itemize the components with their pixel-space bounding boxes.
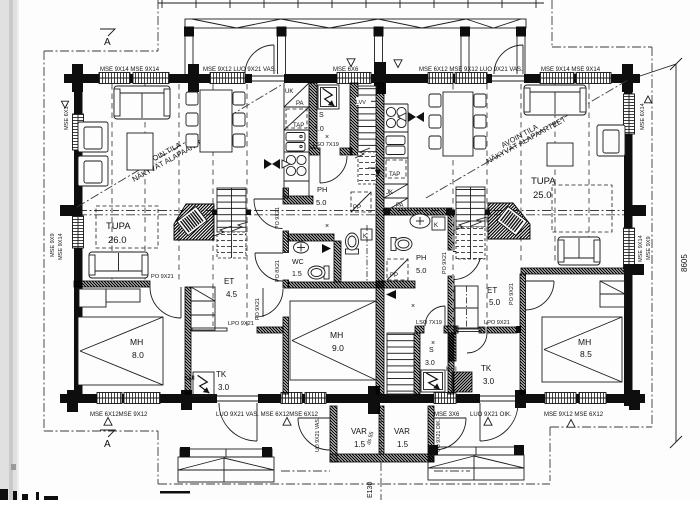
corner arrow left PH (368, 168, 381, 176)
svg-text:MH: MH (130, 337, 143, 347)
entrance door right unit arc (480, 403, 518, 441)
basin WC left (294, 242, 309, 253)
roof overhang line top-left (44, 50, 158, 52)
label TK 3.0 left (216, 370, 230, 392)
label MH 8.5 (578, 337, 592, 359)
diagonal open-space line right (426, 80, 628, 198)
door MH8.5 arc (526, 281, 555, 310)
bed MH9.0 (290, 301, 376, 380)
label KUI right (446, 366, 457, 373)
closet right ET (455, 286, 478, 329)
labels windows top-right-2 (541, 67, 601, 73)
svg-text:3.0: 3.0 (425, 360, 435, 367)
window MSE 6X14 right-1 (624, 94, 635, 134)
dashed plan rect TUPA 26 (96, 206, 158, 248)
threshold bottom doors (217, 396, 518, 401)
dashed plan rect TUPA 25 (552, 185, 612, 232)
kitchen/PH wall right unit (377, 208, 462, 215)
log cross top party-wall (374, 62, 386, 94)
label PH 5.0 left (316, 185, 327, 207)
label JK (386, 190, 393, 196)
text AVOIN TILA right (500, 122, 540, 150)
svg-text:TK: TK (481, 364, 492, 373)
svg-text:LUO 9X21 VAS. MSE 6X12MSE 6X12: LUO 9X21 VAS. MSE 6X12MSE 6X12 (216, 412, 319, 418)
porch post lines down to wall (185, 37, 525, 75)
label MSE 6X14 right wall (640, 96, 652, 130)
svg-text:8605: 8605 (680, 254, 689, 272)
PH east wall right unit (330, 215, 574, 394)
label S 3.0 left sauna (314, 112, 324, 133)
shaft/sauna wall right unit (353, 333, 483, 394)
vent symbol right kitchen (398, 112, 424, 122)
window MSE 9X12 bottom-2 (124, 393, 160, 404)
worktop TAP left (286, 109, 307, 129)
labels door bottom-left (216, 412, 319, 418)
label PO 8X21 door WC (275, 260, 281, 282)
svg-text:PO 9X21: PO 9X21 (275, 207, 281, 229)
label VAR 1.5 right (394, 427, 410, 449)
svg-text:LSO 7X19: LSO 7X19 (313, 142, 339, 148)
label ET 5.0 right (487, 286, 501, 307)
svg-text:MSE 9X14: MSE 9X14 (58, 233, 64, 260)
dining table left TUPA (200, 90, 232, 152)
labels windows top-porch (203, 67, 277, 73)
stairs left unit TUPA (214, 188, 248, 258)
hall wall left unit (206, 188, 367, 394)
sauna south wall left unit (302, 148, 361, 155)
label PO 9X21 right PH (442, 252, 448, 274)
svg-text:K: K (363, 234, 367, 240)
door PH-hall arc (254, 199, 283, 229)
svg-text:MSE 6X12 MSE 9X12 LUO 9X21 VAS: MSE 6X12 MSE 9X12 LUO 9X21 VAS. (419, 67, 523, 73)
svg-text:×: × (411, 303, 415, 310)
bed MH8.0 (78, 317, 163, 385)
scan bottom-left artifacts (0, 464, 190, 500)
toilet WC left (308, 266, 329, 279)
svg-text:VAR: VAR (394, 427, 410, 436)
toilet right PH (391, 238, 412, 251)
label PA right (396, 203, 404, 209)
roof overhang line left (43, 51, 45, 431)
label UO 9X21 OIK (436, 419, 442, 452)
coffee table left TUPA (127, 133, 153, 170)
wall WC north left unit (281, 234, 342, 241)
roof overhang line up-right of porch (551, 0, 553, 47)
svg-text:A: A (104, 439, 111, 450)
section squares at stairs (212, 210, 490, 216)
label WC 1.5 (292, 259, 304, 278)
basin right PH (410, 214, 430, 228)
svg-text:3.0: 3.0 (483, 377, 495, 386)
svg-text:3.0: 3.0 (314, 126, 324, 133)
scan page edge left (0, 0, 19, 500)
cross symbol left PH (325, 134, 329, 230)
labels windows bottom-right (544, 412, 604, 427)
door PH-ET right (453, 252, 481, 280)
window MSE 9X12 bottom-6 (545, 393, 576, 404)
label TUPA 26.0 (106, 221, 131, 246)
log stub right wall mid (624, 205, 646, 216)
svg-text:×: × (325, 223, 329, 230)
roof overhang line right (651, 47, 653, 427)
sauna west wall left unit (244, 83, 384, 148)
svg-text:PH: PH (416, 253, 426, 262)
log stub left wall mid (60, 205, 82, 216)
box K right PH (432, 217, 445, 230)
svg-text:PO 9X21: PO 9X21 (442, 252, 448, 274)
sauna east wall left unit (278, 83, 431, 155)
svg-text:MSE 9X12 LUO 9X21 VAS.: MSE 9X12 LUO 9X21 VAS. (203, 67, 277, 73)
log corner cross top-left (72, 64, 83, 92)
fireplace left unit (138, 204, 251, 240)
svg-text:26.0: 26.0 (108, 235, 127, 246)
labels MSE 9X9/9X14 left wall (50, 233, 64, 260)
svg-text:S: S (319, 112, 324, 119)
roof overhang step left porch (157, 431, 159, 484)
label MH 9.0 (330, 330, 344, 353)
sink right unit (386, 136, 405, 155)
porch canopy posts (184, 27, 526, 37)
armchair left TUPA 1 (78, 122, 108, 152)
svg-text:5.0: 5.0 (416, 266, 426, 275)
window MSE 9X14 top-1 (99, 73, 130, 84)
svg-text:TUPA: TUPA (531, 176, 556, 187)
door MH8 arc (150, 287, 181, 318)
section marker A bottom (100, 430, 115, 450)
svg-text:PP: PP (353, 205, 361, 211)
PH south wall right unit (369, 281, 424, 288)
window MSE 9X14 top-8 (576, 73, 611, 84)
sofa right TUPA bottom (558, 237, 600, 265)
sauna north wall right unit (408, 326, 468, 333)
svg-text:1.5: 1.5 (397, 440, 409, 449)
ceiling beam dashed lines left TUPA (112, 84, 247, 326)
svg-text:5.0: 5.0 (316, 198, 326, 207)
log corner cross top-right (622, 64, 633, 92)
svg-text:TAP: TAP (293, 123, 304, 129)
armchair right TUPA (597, 125, 625, 156)
stairs right unit TUPA (453, 187, 487, 259)
wall ET/MH9 (D) (282, 282, 384, 288)
svg-text:5.0: 5.0 (489, 298, 501, 307)
window MSE 6X12 bottom-3 (281, 393, 302, 404)
stove right unit (386, 107, 406, 127)
svg-text:×: × (431, 340, 435, 347)
label PA (296, 101, 304, 107)
svg-text:MH: MH (330, 330, 343, 340)
svg-text:UO 9X21 VAS.: UO 9X21 VAS. (315, 418, 321, 452)
wall MH8/ET (B) (78, 287, 299, 394)
porch right deck (428, 447, 524, 480)
left exterior wall (74, 74, 83, 403)
labels MSE 9X14/9X9 right wall (638, 235, 652, 262)
entrance door arc right unit (LUO 9X21) (494, 45, 523, 74)
kitchen low wall left unit (275, 196, 322, 204)
window MSE 9X14 top-7 (540, 73, 574, 84)
diagonal open-space line left (77, 84, 283, 207)
shaft right unit (387, 333, 414, 394)
svg-text:8.0: 8.0 (132, 350, 144, 360)
svg-text:TUPA: TUPA (106, 221, 131, 232)
window MSE 6X12 bottom-1 (97, 393, 122, 404)
chairs left of table (186, 92, 198, 147)
window MSE 9X14/9X9 right-2 (624, 228, 635, 268)
arrow triangle right PH (386, 290, 396, 299)
svg-text:MSE 3X6: MSE 3X6 (434, 412, 460, 418)
svg-text:MSE 6X12MSE 9X12: MSE 6X12MSE 9X12 (90, 412, 148, 418)
window MSE 6X12 bottom-7 (579, 393, 606, 404)
label PO 9X21 MH8.5 (509, 283, 515, 305)
label TUPA 25.0 (531, 176, 556, 201)
VAR west wall (274, 406, 396, 462)
MH8.5 north wall (515, 264, 644, 275)
label PO 9X21 MH8 door (151, 274, 174, 280)
sauna stove left (zigzag) (318, 85, 339, 109)
sofa left TUPA bottom (89, 252, 148, 278)
wall WC east left unit (293, 241, 385, 282)
ceiling beam dashed lines right TUPA (453, 84, 589, 325)
svg-text:MSE 9X14: MSE 9X14 (638, 235, 644, 262)
wall ET/TK right unit (473, 326, 526, 333)
washing machine PP right (387, 259, 408, 280)
label UO 9X21 VAS (315, 418, 321, 452)
log cross top porch-left (188, 64, 199, 92)
vent symbol left kitchen (264, 159, 290, 169)
window MSE 9X12 top-3 (210, 73, 245, 84)
label PH 5.0 right (416, 253, 426, 275)
svg-text:LSO 7X19: LSO 7X19 (416, 320, 442, 326)
svg-text:MSE 9X14 MSE 9X14: MSE 9X14 MSE 9X14 (541, 67, 601, 73)
window MSE 6X12 top-5 (428, 73, 453, 84)
door WC arc (255, 253, 283, 281)
porch left posts (180, 447, 272, 457)
svg-text:25.0: 25.0 (533, 190, 552, 201)
svg-text:A: A (104, 37, 111, 48)
bed MH8.5 (542, 317, 622, 382)
window MSE 6X6 top-4 (337, 73, 371, 84)
text NAKYVAT ALAPAARTEET right (485, 114, 568, 166)
tri marker top right (394, 60, 402, 68)
label KUI left (184, 375, 195, 382)
window MSE 9X12 top-6 (455, 73, 487, 84)
svg-text:9.0: 9.0 (332, 343, 344, 353)
svg-text:S: S (429, 347, 434, 354)
dimension line 8605 (640, 58, 689, 448)
text NAKYVAT ALAPAARTEET left (131, 132, 214, 184)
labels windows top-left (100, 67, 160, 73)
entrance door left unit arc (219, 403, 257, 441)
door S-PH arc right (425, 306, 445, 326)
chairs left of table right (429, 94, 441, 149)
log cross bottom party-wall (368, 386, 380, 414)
misc dashdot near VAR (281, 470, 470, 472)
roof overhang line bottom-left (44, 430, 158, 432)
svg-text:MSE 9X9: MSE 9X9 (50, 233, 56, 257)
cross symbol right PH (411, 303, 435, 347)
kitchen counter left unit (284, 83, 309, 196)
log corner cross bottom-right (629, 390, 640, 410)
svg-text:1.5: 1.5 (354, 440, 366, 449)
door TK right arc (467, 333, 487, 353)
svg-text:MSE 9X14 MSE 9X14: MSE 9X14 MSE 9X14 (100, 67, 160, 73)
svg-text:PH: PH (317, 185, 327, 194)
coffee table right TUPA (547, 143, 573, 166)
door MH9 arc (255, 288, 283, 317)
svg-text:PP: PP (390, 273, 398, 279)
label ds55 (366, 431, 375, 446)
shaft LVV left (355, 86, 376, 184)
tri marker bottom center (283, 418, 291, 426)
wall TUPA/MH8 (A) (68, 281, 158, 287)
sauna east wall right unit (421, 333, 485, 361)
fireplace right unit (452, 203, 568, 239)
svg-text:LPO 9X21: LPO 9X21 (484, 320, 510, 326)
porch left deck (178, 449, 274, 482)
VAR south wall (322, 454, 444, 462)
svg-text:K: K (434, 223, 438, 229)
svg-text:MH: MH (578, 337, 591, 347)
svg-text:TAP: TAP (389, 172, 400, 178)
porch canopy roof edge (158, 0, 544, 8)
roof overhang line top-right (552, 46, 652, 48)
text AVOIN TILA left (143, 140, 183, 168)
window MSE 9X14 top-2 (133, 73, 169, 84)
label LPO 9X21 left (228, 321, 254, 327)
worktop TAP right (386, 160, 406, 178)
door VAR left arc (298, 418, 330, 450)
svg-text:PO 9X21: PO 9X21 (255, 298, 261, 320)
closet MH8.5 (600, 281, 625, 307)
stove left unit (286, 155, 306, 175)
sliding door left (192, 328, 227, 331)
svg-text:JK: JK (386, 190, 393, 196)
svg-text:MSE 9X12 MSE 6X12: MSE 9X12 MSE 6X12 (544, 412, 604, 418)
drain line E130 (367, 414, 381, 500)
svg-text:LPO 9X21: LPO 9X21 (228, 321, 254, 327)
roof overhang step right porch (549, 427, 551, 481)
svg-text:×: × (325, 134, 329, 141)
svg-text:LUO 9X21 OIK.: LUO 9X21 OIK. (470, 412, 512, 418)
sauna stove right (zigzag) (421, 370, 445, 392)
log corner cross bottom-left (67, 390, 78, 412)
window MSE 9X9/9X14 left-2 (73, 216, 84, 248)
label MH 8.0 (130, 337, 144, 360)
roof overhang line bottom-right (550, 426, 652, 428)
threshold top doors (252, 76, 524, 81)
window MSE 6X14 left-1 (73, 114, 84, 150)
svg-text:VAR: VAR (351, 427, 367, 436)
arrow WC left (322, 244, 331, 253)
label MSE 3X6 (434, 412, 460, 418)
drying cab left (193, 372, 214, 396)
svg-text:8.5: 8.5 (580, 349, 592, 359)
door VAR right arc (434, 418, 466, 450)
VAR east wall (372, 406, 491, 462)
dining table right TUPA (443, 92, 473, 156)
label ET 4.5 (224, 277, 238, 299)
washing machine PP left (351, 192, 371, 212)
label MSE 6X14 left wall (61, 101, 70, 130)
label window MSE 6X6 (333, 59, 359, 73)
porch right posts (428, 445, 524, 455)
svg-text:1.5: 1.5 (292, 271, 302, 278)
sliding door right (455, 328, 481, 332)
label UK (285, 89, 293, 95)
right exterior wall (624, 70, 633, 406)
label LPO 9X21 right (484, 320, 510, 326)
section line A-A (62, 211, 640, 215)
window MSE 3X6 bottom-5 (434, 393, 456, 404)
label VAR 1.5 left (351, 427, 367, 449)
labels windows bottom-left (90, 412, 148, 425)
section marker A top (100, 29, 115, 48)
label PO 9X21 door PH (275, 207, 281, 229)
svg-text:ET: ET (224, 277, 234, 286)
sink left unit (286, 133, 305, 152)
party wall (hatched) (65, 83, 697, 394)
wall ET/TK left unit (251, 327, 290, 333)
svg-text:E130: E130 (367, 482, 374, 498)
toilet left PH (346, 225, 368, 282)
porch canopy truss beam (185, 19, 526, 28)
svg-text:WC: WC (292, 259, 304, 266)
log cross bottom wall-B (181, 390, 192, 410)
label LUO 9X21 OIK (470, 412, 512, 418)
log cross bottom MH8.5-wall (515, 390, 526, 408)
label S 3.0 right sauna (425, 347, 435, 367)
door LSO sauna left (313, 142, 339, 148)
sofa right TUPA top (524, 85, 586, 115)
entrance door arc left unit (LUO 9X21) (245, 45, 274, 74)
door sauna-PH arc (320, 155, 347, 183)
svg-text:MSE 6X14: MSE 6X14 (640, 103, 646, 130)
svg-text:PA: PA (396, 203, 404, 209)
tri marker bottom right1 (484, 418, 492, 426)
svg-text:ET: ET (487, 286, 497, 295)
svg-text:TK: TK (216, 370, 227, 379)
MH8.5 west wall (400, 274, 646, 394)
svg-text:4.5: 4.5 (226, 290, 238, 299)
svg-text:MSE 6X6: MSE 6X6 (333, 67, 359, 73)
svg-text:3.0: 3.0 (218, 383, 230, 392)
bottom exterior wall (60, 394, 645, 403)
svg-text:UK: UK (285, 89, 293, 95)
roof overhang line bottom (158, 483, 550, 485)
door LSO sauna right (416, 320, 442, 326)
box K left PH (361, 229, 372, 240)
roof overhang line up-left of porch (157, 0, 159, 51)
chairs right of table right (474, 94, 486, 149)
svg-text:PO 9X21: PO 9X21 (509, 283, 515, 305)
svg-text:PO 9X21: PO 9X21 (151, 274, 174, 280)
svg-text:LVV: LVV (356, 100, 366, 106)
top exterior wall (64, 74, 640, 83)
label TK 3.0 right (481, 364, 495, 386)
drying cab right (432, 372, 494, 392)
window MSE 6X12 bottom-4 (305, 393, 326, 404)
VAR middle wall (331, 406, 433, 454)
dresser MH8.0 (79, 289, 140, 307)
chairs right of table (233, 92, 245, 147)
svg-text:ds 55: ds 55 (366, 431, 375, 446)
kitchen counter right unit (384, 104, 408, 212)
svg-text:MSE 9X9: MSE 9X9 (646, 236, 652, 260)
sofa left TUPA top (114, 86, 170, 119)
closet left ET (191, 287, 215, 330)
labels windows top-right-1 (419, 67, 523, 73)
svg-text:PO 8X21: PO 8X21 (275, 260, 281, 282)
armchair left TUPA 2 (78, 156, 108, 186)
